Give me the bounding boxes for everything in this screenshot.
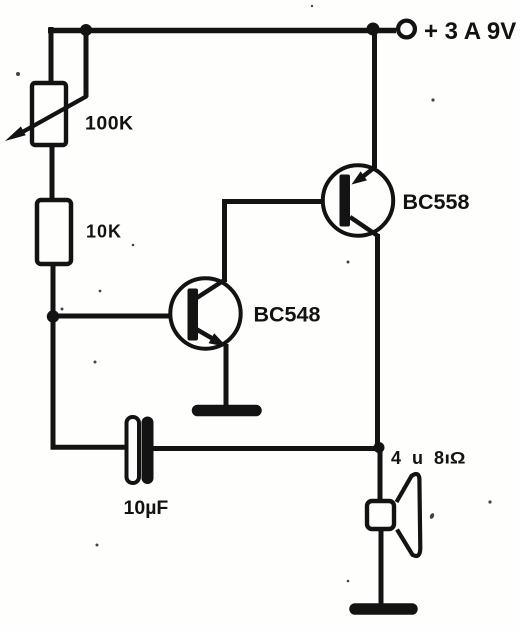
svg-text:10µF: 10µF (124, 497, 169, 519)
wire 10K bottom to node A (51, 261, 56, 318)
ground speaker (355, 603, 412, 615)
svg-text:ıΩ: ıΩ (445, 450, 466, 468)
node A junction dot (10K / base / cap) (47, 310, 59, 322)
wire Q1 emitter to ground (224, 344, 229, 406)
wire node A to Q1 base (51, 314, 193, 319)
wire node B to speaker (378, 447, 383, 501)
wire top horizontal rail (48, 28, 396, 34)
wire Q1 collector riser and to Q2 base (222, 202, 344, 283)
svg-text:BC558: BC558 (403, 190, 470, 214)
wire pot top lead (49, 27, 54, 85)
potentiometer P1 wiper arrow (18, 96, 87, 135)
transistor Q2 emitter lead with arrow (363, 167, 375, 177)
transistor Q2 collector lead (350, 217, 378, 236)
transistor Q2 BC558 circle (323, 165, 393, 235)
resistor R1 body 10K (37, 200, 71, 264)
svg-text:4 u 8: 4 u 8 (391, 448, 447, 468)
potentiometer P1 body 100K (32, 83, 66, 145)
wire pot bottom to 10K (50, 142, 55, 203)
svg-text:100K: 100K (85, 113, 134, 135)
wire Q2 collector down to node B (375, 234, 380, 448)
wire node A down left vertical (53, 316, 127, 447)
svg-text:+ 3 A 9V: + 3 A 9V (424, 18, 516, 45)
capacitor C1 positive plate (solid) (142, 417, 154, 485)
node junction dot supply rail (367, 23, 380, 36)
transistor Q1 collector lead (195, 279, 226, 299)
wire speaker to ground (379, 530, 384, 604)
speaker SPK horn (397, 474, 421, 556)
wire right vertical from rail to Q2 emitter (372, 29, 377, 168)
transistor Q1 base bar (188, 289, 199, 341)
node junction dot wiper-rail (80, 24, 92, 36)
ground Q1 emitter (198, 405, 257, 417)
svg-text:10K: 10K (86, 222, 122, 242)
terminal +V circle (398, 21, 415, 38)
wire wiper riser (84, 28, 89, 97)
transistor Q1 emitter lead with arrow (196, 329, 215, 340)
transistor Q2 base bar (340, 175, 351, 227)
node B junction dot (cap / collector / speaker) (374, 442, 385, 453)
wire capacitor to node B (152, 446, 376, 451)
transistor Q1 BC548 circle (170, 278, 240, 348)
capacitor C1 negative plate (outlined) (127, 417, 140, 483)
svg-text:BC548: BC548 (254, 303, 321, 327)
speaker SPK box (367, 501, 394, 529)
